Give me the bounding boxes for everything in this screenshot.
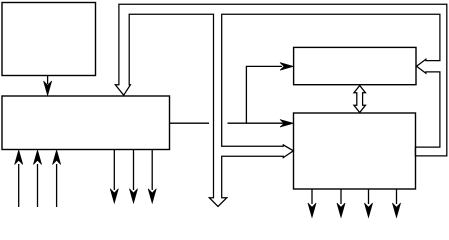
arrows: three filled down-arrows out of bottom of block B <box>110 150 156 203</box>
block D (bottom-right rectangle) <box>294 113 416 189</box>
bus: hollow channel (top run, right run, middle drop) with hollow arrowheads <box>115 4 447 206</box>
arrow: block A to block B (filled, down) <box>44 76 52 96</box>
block B (left-middle wide rectangle) <box>2 96 170 150</box>
arrows: three filled up-arrows into bottom of block B <box>15 150 61 207</box>
arrow: hollow double-headed vertical between block C and block D <box>354 86 366 113</box>
wire: vertical branch up at x=246 <box>246 66 282 123</box>
block C (top-right rectangle) <box>294 47 416 84</box>
arrow head (filled) into block C left edge <box>280 63 294 71</box>
arrows: four filled down-arrows out of bottom of block D <box>308 189 401 218</box>
arrow head (filled) into block D left edge <box>280 120 294 128</box>
block A (top-left rectangle) <box>2 3 96 76</box>
wire: horizontal line from block B right edge toward block D (left segment, gap at bus crossing) <box>170 122 210 124</box>
wire: horizontal line resuming after bus crossing into block D <box>228 122 286 124</box>
